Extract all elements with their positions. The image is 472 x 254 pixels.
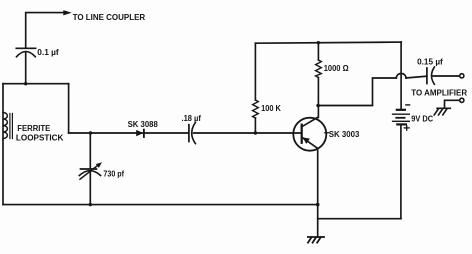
wire hop over supply wire — [396, 73, 406, 78]
output terminal (top) — [460, 74, 464, 78]
junction dot: antenna tap on tank top — [24, 82, 27, 85]
wire: tap down to variable capacitor — [89, 133, 91, 169]
junction dot: 1000 ohm tap on rail — [317, 41, 320, 44]
wire: supply rail down to battery — [400, 42, 402, 109]
svg-text:.18 µf: .18 µf — [182, 114, 202, 123]
wire: bottom return to emitter line — [318, 218, 401, 220]
ground (output return) — [434, 108, 450, 115]
battery B1 9V — [393, 110, 410, 125]
wire: C3 to transistor base — [194, 132, 301, 134]
ferrite loopstick box left edge — [2, 84, 4, 205]
transistor Q1 base bar — [301, 125, 303, 143]
junction dot: ground rail meets emitter — [316, 203, 320, 207]
transistor Q1 collector lead — [302, 117, 318, 127]
wire: variable capacitor to ground rail — [89, 172, 91, 205]
svg-text:SK 3003: SK 3003 — [329, 130, 360, 139]
capacitor C4 0.15 uf — [427, 67, 435, 84]
wire: bottom ground rail — [3, 204, 318, 206]
label FERRITE LOOPSTICK — [16, 124, 64, 142]
svg-text:SK 3088: SK 3088 — [128, 120, 159, 129]
svg-text:9V DC: 9V DC — [411, 115, 433, 124]
inductor L1 core bars — [10, 114, 13, 139]
resistor R1 100K — [253, 43, 259, 133]
resistor R2 1000 ohm — [316, 43, 322, 118]
svg-text:730 pf: 730 pf — [103, 169, 124, 178]
output terminal (bottom) — [460, 98, 464, 102]
wire: battery negative to bottom return — [400, 124, 402, 218]
junction dot: variable capacitor tap — [89, 131, 92, 134]
wire: top supply rail — [255, 42, 401, 43]
ferrite loopstick box right edge — [68, 84, 70, 133]
wire: C1 to tank circuit top — [25, 52, 27, 84]
svg-text:TO AMPLIFIER: TO AMPLIFIER — [411, 89, 467, 98]
capacitor C1 0.1 uf — [16, 48, 35, 57]
svg-text:LOOPSTICK: LOOPSTICK — [16, 133, 64, 142]
variable capacitor C2 730 pf — [79, 162, 102, 179]
junction dot: collector node — [316, 104, 320, 108]
junction dot: 100K tap on base line — [254, 131, 257, 134]
wire: top-left output to line coupler — [26, 13, 64, 48]
inductor L1 coil (ferrite loopstick) — [3, 113, 7, 139]
wire: C4 to output terminal — [433, 75, 460, 77]
wire: hop to C4 — [406, 76, 427, 78]
battery plus sign — [404, 126, 409, 131]
leader dash to transistor label — [325, 132, 329, 134]
transistor Q1 SK3003 body — [293, 118, 326, 151]
svg-text:FERRITE: FERRITE — [17, 124, 51, 133]
wire: collector node to output coupling — [318, 78, 396, 106]
svg-text:TO LINE COUPLER: TO LINE COUPLER — [73, 13, 146, 22]
transistor Q1 emitter lead — [303, 138, 318, 149]
wire: bottom terminal to ground — [445, 100, 460, 108]
svg-text:0.15 µf: 0.15 µf — [417, 58, 443, 67]
wire: emitter down to ground — [317, 150, 319, 237]
battery minus sign — [406, 104, 410, 106]
arrow to line coupler — [63, 10, 71, 15]
diode D1 SK3088 — [136, 130, 144, 137]
ground (main) — [308, 237, 324, 243]
ferrite loopstick box top edge — [3, 83, 69, 85]
junction dot: variable capacitor on ground rail — [89, 203, 92, 206]
wire: tank output to diode (main signal line) — [69, 132, 189, 134]
capacitor C3 .18 uf — [189, 123, 196, 144]
svg-text:1000 Ω: 1000 Ω — [324, 64, 350, 73]
transistor Q1 emitter arrow — [303, 137, 310, 144]
svg-text:0.1 µf: 0.1 µf — [37, 48, 59, 57]
svg-text:100 K: 100 K — [261, 104, 281, 113]
